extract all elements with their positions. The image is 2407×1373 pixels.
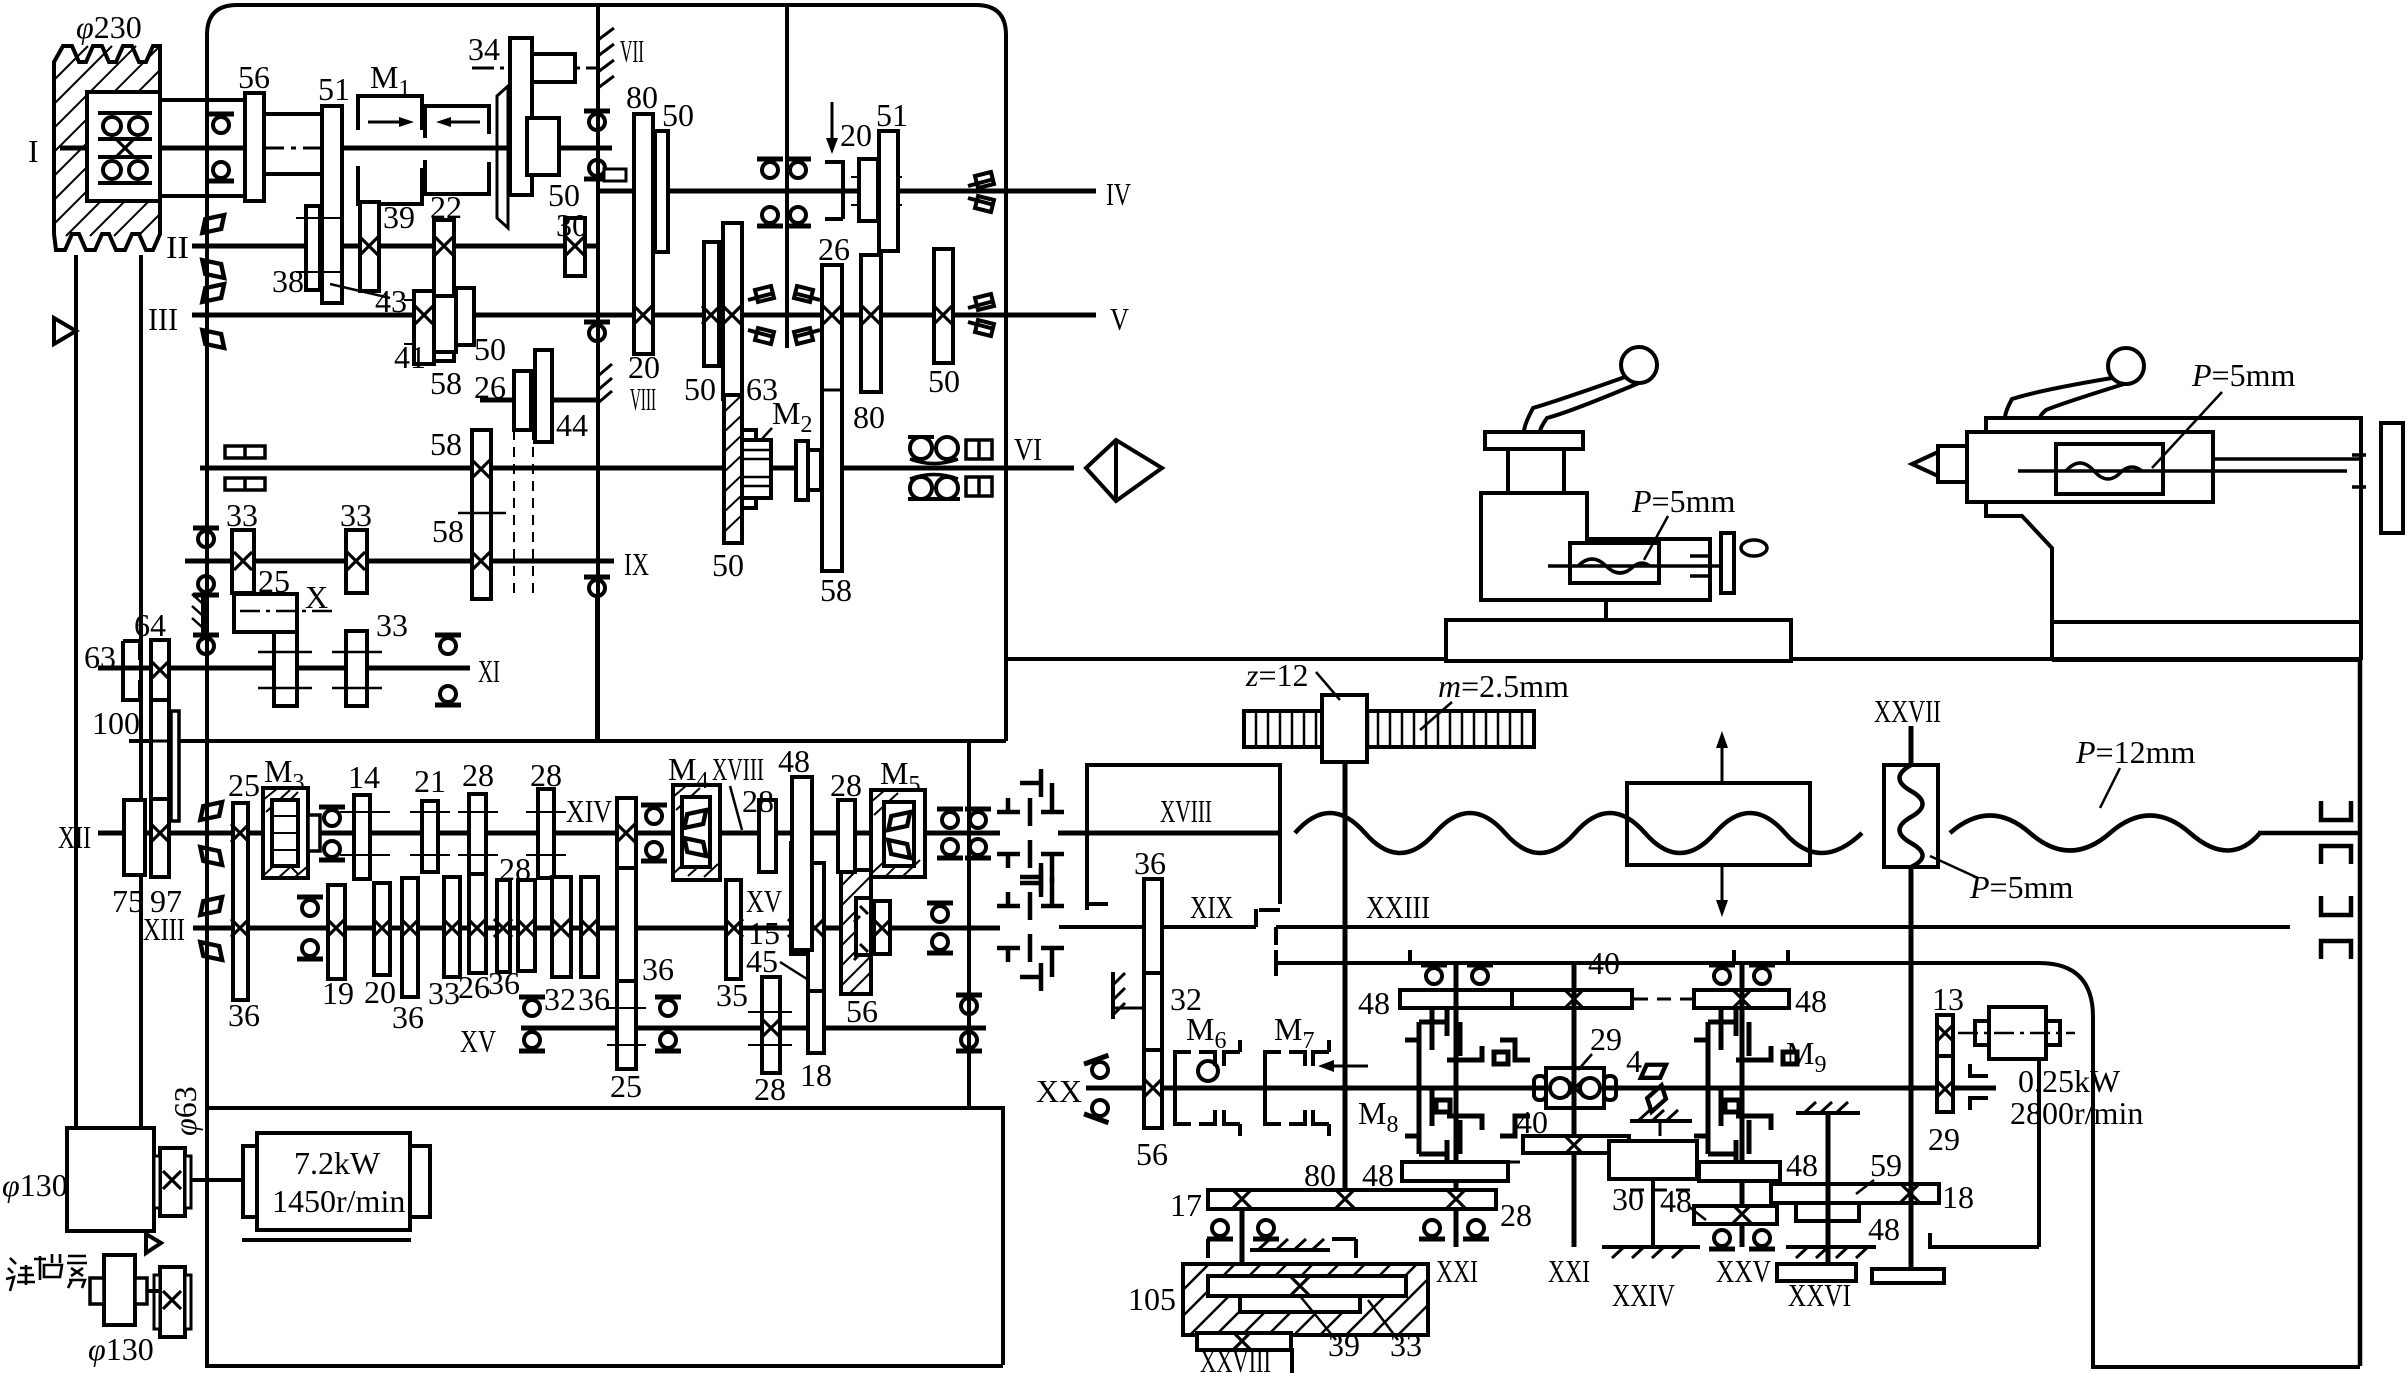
gear 36d on XIII <box>581 877 598 977</box>
mesh ticks XV lower <box>607 1008 792 1045</box>
svg-text:36: 36 <box>228 997 260 1033</box>
gear 28e on XV lower <box>762 977 780 1073</box>
svg-text:40: 40 <box>1516 1104 1548 1140</box>
svg-text:33: 33 <box>1390 1327 1422 1363</box>
svg-text:58: 58 <box>430 426 462 462</box>
gear 33 a on IX <box>232 530 254 593</box>
XVIII gearbox outline <box>1087 765 1280 910</box>
svg-text:40: 40 <box>1588 945 1620 981</box>
lower-left gearbox box <box>205 1108 1003 1365</box>
gear 28b on XIV <box>538 789 554 878</box>
XXVII foot <box>1872 1269 1944 1283</box>
svg-text:XIV: XIV <box>566 793 612 829</box>
row5 bar 48 XXV <box>1694 1206 1777 1224</box>
svg-text:58: 58 <box>820 572 852 608</box>
svg-text:P=5mm: P=5mm <box>2191 357 2295 393</box>
shaft III left hooks <box>202 284 224 348</box>
svg-text:IX: IX <box>624 546 649 582</box>
XIX support bearings <box>927 903 953 922</box>
hydraulic pump label (CJK strokes) <box>6 1254 87 1291</box>
quill bottom line <box>2213 457 2361 461</box>
nut up arrow <box>1721 737 1724 783</box>
gear 25/36 column right <box>617 798 636 868</box>
svg-text:28: 28 <box>742 783 774 819</box>
gear 38 on II <box>306 206 320 290</box>
svg-text:63: 63 <box>84 639 116 675</box>
IV right jaws <box>968 172 994 212</box>
svg-text:IV: IV <box>1106 176 1131 212</box>
gear 97 <box>151 799 169 877</box>
gear 13/29 column <box>1937 1015 1953 1056</box>
leadscrew end line <box>2258 831 2360 836</box>
clutch M6 <box>1175 1040 1240 1136</box>
shaft XXVII lower vertical <box>1909 867 1914 1269</box>
M3 hub <box>308 815 320 851</box>
gear 18 on XV lower <box>808 991 824 1053</box>
svg-text:48: 48 <box>1660 1183 1692 1219</box>
worm squiggle <box>1900 765 1923 867</box>
svg-text:48: 48 <box>778 743 810 779</box>
M7 arrow <box>1322 1065 1368 1068</box>
svg-text:φ63: φ63 <box>167 1086 203 1136</box>
svg-text:25: 25 <box>610 1068 642 1104</box>
rack bar <box>1244 711 1534 747</box>
svg-text:XVIII: XVIII <box>1160 793 1212 829</box>
bearings under XXI-1 <box>1419 1220 1445 1239</box>
housing block <box>1609 1141 1697 1179</box>
gear 21 on XIV <box>422 801 438 872</box>
gear 40 mid bar <box>1523 1136 1629 1153</box>
gear 20 <box>374 883 390 975</box>
belt lines down from pulley <box>74 255 78 1128</box>
svg-text:VII: VII <box>620 33 644 69</box>
small motor 0.25kW <box>1989 1007 2046 1059</box>
worm box XXVII <box>1884 765 1938 867</box>
shaft I left bearing <box>208 114 234 133</box>
pulley phi230 hatched body <box>54 46 160 250</box>
svg-text:XIX: XIX <box>1190 889 1233 925</box>
vertical shaft XXI-1 <box>1454 963 1459 1247</box>
svg-text:XXVI: XXVI <box>1788 1277 1851 1313</box>
svg-text:32: 32 <box>544 981 576 1017</box>
gear 51 on I <box>322 106 342 303</box>
gear 50 on V right <box>934 249 953 363</box>
gear 32 section <box>1144 973 1162 1050</box>
dead center cone <box>1912 446 1967 482</box>
XIX end brackets <box>1256 909 1276 945</box>
svg-text:36: 36 <box>642 951 674 987</box>
svg-text:80: 80 <box>626 79 658 115</box>
X column lower <box>274 632 297 706</box>
bearings under bar at 1242 <box>1207 1220 1233 1239</box>
gear 56 white <box>874 901 890 954</box>
gear 26/58 column on V <box>822 265 842 571</box>
gear 35 on XV <box>726 880 741 979</box>
XV lower bearings <box>519 997 545 1016</box>
gear 80 on V right <box>861 255 881 392</box>
clutch M3 hatched <box>263 788 308 878</box>
gear 25/36 column on XII-XIII <box>233 803 248 1000</box>
gear 59 hub bar <box>1796 1203 1859 1221</box>
pinion z=12 <box>1322 695 1367 762</box>
gear 28a on XIV <box>469 794 486 879</box>
VIII left bearing <box>584 322 610 341</box>
dashed link <box>1634 998 1694 1001</box>
svg-text:29: 29 <box>1928 1121 1960 1157</box>
shaft XXVI vertical <box>1826 1113 1831 1264</box>
gear 22 on II <box>434 220 454 361</box>
gear 50 on III <box>456 288 474 345</box>
safety clutch 29 <box>1534 1068 1616 1108</box>
clutch M2 hatched body <box>724 395 742 543</box>
svg-text:19: 19 <box>322 975 354 1011</box>
phi63 pulley upper <box>160 1148 185 1216</box>
V right jaws <box>968 294 994 336</box>
VI right support vertical x=1006 <box>1004 501 1008 741</box>
XII left hooks on wall <box>200 802 222 865</box>
dashed between <box>1630 1189 1694 1192</box>
svg-text:100: 100 <box>92 705 140 741</box>
gear 36b <box>497 880 510 972</box>
shaft V <box>598 313 1096 318</box>
gear 58 double on VI/IX <box>472 430 491 599</box>
IX right support bearing + line <box>584 577 610 596</box>
rack teeth <box>1256 711 1522 747</box>
gear 56 on I <box>245 93 264 201</box>
tailstock body <box>1967 432 2213 502</box>
svg-text:59: 59 <box>1870 1147 1902 1183</box>
svg-text:2800r/min: 2800r/min <box>2010 1095 2143 1131</box>
XXVIII end bracket <box>1279 1350 1292 1373</box>
svg-text:P=5mm: P=5mm <box>1631 483 1735 519</box>
clutch M1 right arrow <box>440 121 480 124</box>
svg-text:58: 58 <box>432 513 464 549</box>
25b lower right bearing <box>655 997 681 1016</box>
shaft IX <box>185 559 614 564</box>
bearing pair right of M3 <box>319 807 345 826</box>
svg-text:XXV: XXV <box>1716 1253 1771 1289</box>
svg-text:43: 43 <box>375 283 407 319</box>
shaft VII wall hatch <box>598 28 614 90</box>
shaft IV <box>598 189 1096 194</box>
shaft VII dash-dot <box>472 67 600 70</box>
belt to motor line <box>191 1178 257 1182</box>
svg-text:VI: VI <box>1014 431 1042 467</box>
shaft I sleeve lines <box>160 98 245 102</box>
svg-text:XXVIII: XXVIII <box>1200 1343 1271 1373</box>
gear 26 on VIII <box>514 371 531 430</box>
gear 32 <box>518 880 535 971</box>
nut down arrow <box>1721 865 1724 911</box>
motor 7.2kW box <box>257 1133 410 1230</box>
svg-text:7.2kW: 7.2kW <box>294 1145 381 1181</box>
gear 20 on IV <box>859 159 878 221</box>
pump shaft <box>147 1289 160 1293</box>
svg-text:80: 80 <box>853 399 885 435</box>
shaft I bearing balls in hub <box>98 113 152 183</box>
motor right cap <box>410 1146 430 1217</box>
dash extension left <box>1405 1161 1520 1164</box>
gear 36a <box>402 878 418 997</box>
svg-text:28: 28 <box>1500 1197 1532 1233</box>
headstock enclosure rounded box <box>207 5 1006 1366</box>
gear 14 on XIV <box>354 795 370 879</box>
pulley hub white pocket <box>87 92 160 201</box>
IX left support bearing <box>193 528 219 547</box>
right flange <box>2381 423 2403 533</box>
gear 50 on I right <box>527 118 559 175</box>
svg-text:21: 21 <box>414 763 446 799</box>
svg-text:m=2.5mm: m=2.5mm <box>1438 668 1569 704</box>
svg-text:33: 33 <box>428 975 460 1011</box>
shaft I right bearing <box>584 111 610 130</box>
clutch M5 hatched <box>871 790 925 877</box>
sleeve pair right of M2 <box>796 441 808 500</box>
svg-text:39: 39 <box>1328 1327 1360 1363</box>
clutch M8 structure <box>1405 1008 1530 1168</box>
XX left hook bearings <box>1084 1055 1115 1123</box>
svg-text:XX: XX <box>1036 1073 1082 1109</box>
gear 33 c on XI <box>346 631 367 706</box>
V mid jaws <box>748 286 820 344</box>
M2 toothed hub <box>742 440 771 498</box>
svg-text:φ130: φ130 <box>2 1167 68 1203</box>
apron top boundary y=659 <box>1006 657 2360 661</box>
shaft XII/XIV/XVIII <box>98 831 1000 836</box>
feedbox right support wall x=969 <box>967 741 971 1108</box>
leadscrew wavy thread left of nut <box>1295 813 1862 853</box>
svg-text:0.25kW: 0.25kW <box>2018 1063 2121 1099</box>
svg-text:25: 25 <box>228 767 260 803</box>
svg-text:20: 20 <box>840 117 872 153</box>
row3 bar right 48 <box>1699 1162 1780 1181</box>
gear 56 inner <box>856 898 871 955</box>
svg-text:26: 26 <box>818 231 850 267</box>
svg-text:XV: XV <box>460 1023 496 1059</box>
svg-text:28: 28 <box>830 767 862 803</box>
svg-text:75: 75 <box>112 883 144 919</box>
inner vertical wall x=598 <box>596 5 600 741</box>
shaft XX <box>1086 1086 1996 1091</box>
belt triangle lower <box>146 1234 161 1253</box>
svg-text:28: 28 <box>754 1071 786 1107</box>
XXVIII gear bar <box>1197 1333 1291 1350</box>
VI left special bearing <box>225 446 265 490</box>
headstock bottom edge <box>129 739 1006 743</box>
base block <box>1446 620 1791 661</box>
mesh ticks IV gears <box>851 177 902 205</box>
body outline lower <box>1986 465 2361 660</box>
svg-text:48: 48 <box>1786 1147 1818 1183</box>
svg-text:34: 34 <box>468 31 500 67</box>
svg-text:33: 33 <box>226 497 258 533</box>
X axis dash line <box>240 610 338 613</box>
svg-text:56: 56 <box>846 993 878 1029</box>
svg-text:29: 29 <box>1590 1021 1622 1057</box>
svg-text:X: X <box>305 579 328 615</box>
spindle center arrowhead <box>1086 440 1162 501</box>
shaft III <box>192 313 598 318</box>
crank handle oval <box>1741 540 1767 556</box>
vertical shaft XXI-2 <box>1572 963 1577 1247</box>
column lower part 25 <box>617 981 636 1069</box>
svg-text:25: 25 <box>258 563 290 599</box>
brackets above 105 <box>1208 1239 1356 1258</box>
x mark on shaft I in hub <box>116 139 134 157</box>
clutch M4 hatched <box>673 785 720 880</box>
svg-text:35: 35 <box>716 977 748 1013</box>
ground hatch under 4 <box>1630 1110 1692 1136</box>
svg-text:64: 64 <box>134 607 166 643</box>
svg-text:XXIV: XXIV <box>1612 1277 1675 1313</box>
leader <box>1644 516 1668 560</box>
shaft XIII/XV <box>193 926 1000 931</box>
motor brackets <box>1970 1064 1988 1110</box>
svg-text:XV: XV <box>746 883 782 919</box>
sliding gear pair on XV <box>791 843 804 954</box>
XXVI ground hatch <box>1786 1247 1876 1258</box>
flange bracket gaps <box>2352 455 2366 487</box>
svg-text:XI: XI <box>478 653 500 689</box>
svg-text:48: 48 <box>1358 985 1390 1021</box>
pump pulley caps <box>90 1278 104 1304</box>
handle ball <box>1621 347 1657 383</box>
shaft II left hooks <box>202 215 224 278</box>
right border wall <box>2358 659 2363 1366</box>
svg-text:28: 28 <box>462 757 494 793</box>
shaft XV lower row <box>521 1026 986 1031</box>
vertical shaft from pinion to gear80 <box>1343 762 1348 1199</box>
XXIV ground hatch left <box>1602 1247 1700 1258</box>
svg-text:V: V <box>1110 301 1129 337</box>
svg-text:33: 33 <box>340 497 372 533</box>
line down from block <box>1651 1179 1655 1247</box>
shaft VI spindle <box>200 466 1074 471</box>
svg-text:XXVII: XXVII <box>1874 693 1941 729</box>
phi130 upper pulley <box>67 1128 154 1231</box>
svg-text:30: 30 <box>1612 1181 1644 1217</box>
bearings under XXV <box>1709 1230 1735 1249</box>
IX wall hatch <box>192 594 203 634</box>
gear 33 <box>444 877 460 977</box>
screw wave <box>1578 559 1650 573</box>
XXIII line right part <box>1276 925 2290 929</box>
svg-text:56: 56 <box>1136 1136 1168 1172</box>
svg-text:51: 51 <box>876 97 908 133</box>
svg-text:33: 33 <box>376 607 408 643</box>
shaft I <box>60 146 266 151</box>
svg-text:13: 13 <box>1932 981 1964 1017</box>
shaft VIII wall hatch <box>598 364 612 404</box>
svg-text:28: 28 <box>530 757 562 793</box>
svg-text:97: 97 <box>150 883 182 919</box>
clutch M1 right jaw <box>425 106 489 194</box>
sleeve column 64/97 <box>151 700 169 799</box>
gear mesh ticks XIV row <box>340 812 566 855</box>
gear 28c on XVIII <box>759 800 776 872</box>
M2 step body <box>742 430 756 508</box>
svg-text:50: 50 <box>928 363 960 399</box>
vertical shaft XXV <box>1740 963 1745 1247</box>
bearings above top bar XXI <box>1421 965 1447 984</box>
svg-text:36: 36 <box>488 965 520 1001</box>
svg-text:II: II <box>166 229 189 265</box>
XXVI foot <box>1777 1264 1856 1281</box>
gear 51 on IV <box>879 131 898 251</box>
top gear bar row y999 <box>1400 990 1512 1008</box>
sleeve lines 56-51 <box>264 112 322 116</box>
gear 39 on II <box>360 202 379 291</box>
clutch M7 <box>1265 1040 1329 1136</box>
feed rod right thrust brackets <box>2321 896 2351 915</box>
shaft XI <box>98 666 470 671</box>
gear 44 on VIII <box>535 350 552 442</box>
svg-text:I: I <box>28 133 39 169</box>
gear 80 on IV <box>634 114 653 354</box>
gear 56 section <box>1144 1050 1162 1128</box>
z=12 leader <box>1316 672 1340 700</box>
center line <box>2018 469 2347 473</box>
column <box>1508 449 1564 493</box>
svg-text:39: 39 <box>383 199 415 235</box>
svg-text:18: 18 <box>1942 1179 1974 1215</box>
top bar right section 48 <box>1694 990 1789 1008</box>
gear 50 on IV <box>655 131 668 252</box>
pump pulley phi130 <box>104 1255 135 1325</box>
gear 41 on III <box>414 291 434 364</box>
gear 28d on XVIII <box>838 800 855 872</box>
end bracket plate <box>1721 533 1734 593</box>
M2 leader <box>750 428 772 452</box>
handle ball <box>2108 348 2144 384</box>
svg-text:φ230: φ230 <box>76 9 142 45</box>
bracket ends at y963 <box>1276 950 1814 976</box>
item 4 jaws <box>1641 1060 1671 1112</box>
XXVIII vertical shaft <box>1240 1209 1245 1333</box>
svg-text:22: 22 <box>430 189 462 225</box>
svg-text:58: 58 <box>430 365 462 401</box>
sleeve on VII <box>532 54 575 82</box>
leader 43 <box>330 284 390 298</box>
vertical line x2039 motor to bottom bracket <box>2037 1059 2041 1247</box>
x on gear30 <box>566 237 584 255</box>
bearing mark rects <box>604 169 626 181</box>
m leader <box>1420 702 1452 730</box>
svg-text:17: 17 <box>1170 1187 1202 1223</box>
pedestal <box>1604 600 1608 620</box>
gear 63 on XI left <box>123 641 140 700</box>
gear 50 left on V <box>704 242 719 366</box>
worm x mark <box>1291 1277 1309 1295</box>
svg-text:XXI: XXI <box>1436 1253 1478 1289</box>
motor left cap <box>243 1146 257 1217</box>
svg-text:105: 105 <box>1128 1281 1176 1317</box>
gear 64 on XI <box>151 640 169 700</box>
svg-text:48: 48 <box>1362 1157 1394 1193</box>
XIII left hooks on wall <box>200 897 222 960</box>
svg-text:50: 50 <box>712 547 744 583</box>
gear 26 <box>469 874 486 973</box>
svg-text:XVIII: XVIII <box>712 751 764 787</box>
XIII bearing at gear19 <box>297 897 323 916</box>
gear 48 tall on XVIII <box>792 777 812 950</box>
belt direction triangle <box>54 318 76 344</box>
XXVI top ground <box>1796 1102 1860 1113</box>
phi63 lower pulley <box>160 1267 185 1337</box>
VI right bearings <box>908 437 958 464</box>
mesh ticks II row <box>296 218 466 344</box>
45 leader <box>780 962 818 986</box>
